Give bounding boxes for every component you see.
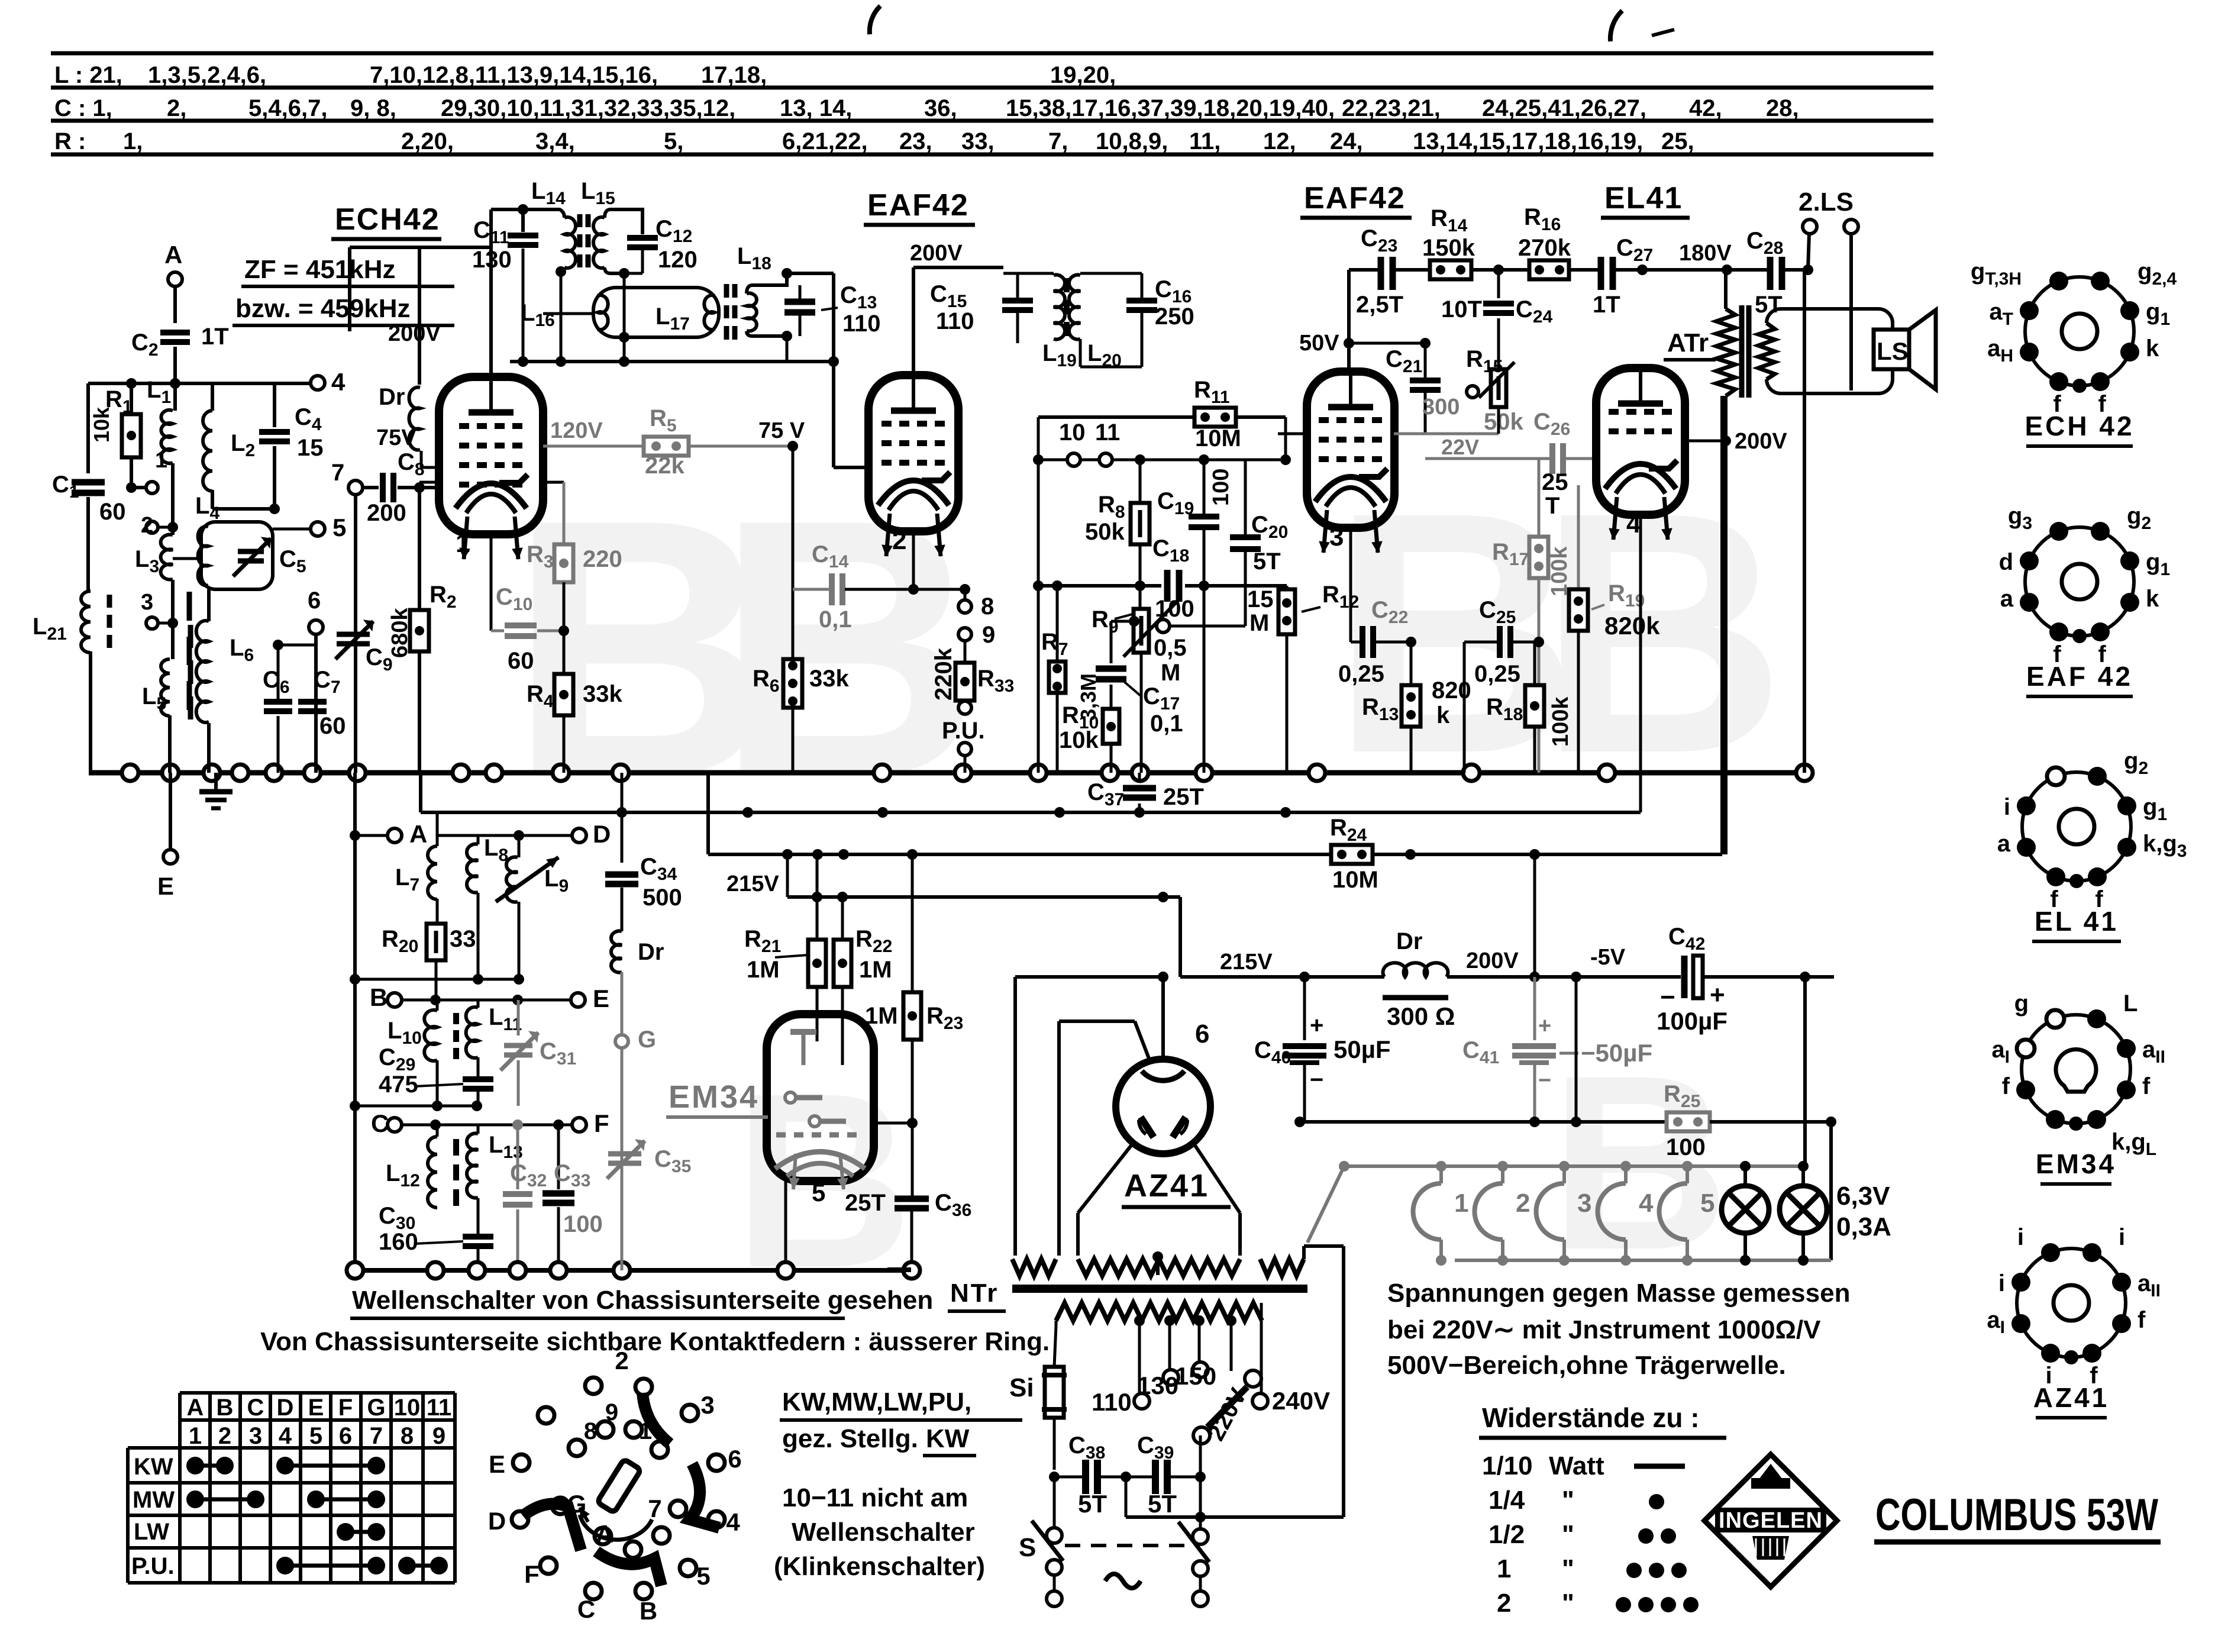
junction (812, 849, 823, 860)
svg-text:60: 60 (319, 713, 346, 739)
svg-text:60: 60 (508, 648, 534, 674)
socket EL41 (2022, 772, 2131, 881)
svg-text:28,: 28, (1766, 95, 1799, 121)
svg-text:25T: 25T (1163, 784, 1204, 810)
junction (1134, 807, 1145, 818)
transformer NTr primary winding (1056, 1303, 1262, 1321)
terminal F (572, 1118, 586, 1132)
wire (1447, 975, 1535, 979)
junction (430, 1119, 441, 1130)
rotary rotor (597, 1459, 641, 1513)
resistor R10 (1110, 685, 1113, 709)
svg-text:B: B (217, 1395, 234, 1421)
tube EAF42 V3 (1307, 372, 1394, 528)
wire (563, 715, 566, 773)
capacitor C32 (516, 1125, 519, 1189)
capacitor C14 (793, 588, 829, 591)
rotary contact arcs (642, 1393, 670, 1444)
svg-text:33,: 33, (961, 128, 995, 154)
wire (211, 490, 214, 509)
capacitor C21 (1424, 343, 1427, 379)
svg-text:E: E (157, 872, 174, 900)
svg-text:": " (1562, 1589, 1574, 1618)
junction (349, 764, 366, 781)
transformer NTr core bar (1012, 1285, 1307, 1293)
junction (350, 974, 360, 985)
svg-text:+: + (1310, 1012, 1323, 1038)
svg-text:k: k (2146, 335, 2159, 362)
wire (1724, 270, 1728, 309)
resistor R24 (1331, 845, 1373, 864)
wire switch bus (354, 1268, 914, 1273)
resistor R8 (1139, 460, 1142, 503)
svg-text:10M: 10M (1195, 425, 1241, 451)
svg-text:5,: 5, (664, 128, 683, 154)
junction (903, 1262, 920, 1279)
wire (168, 715, 172, 773)
terminal 6 (309, 620, 323, 634)
svg-text:G: G (367, 1395, 385, 1421)
resistor R5 (543, 445, 644, 448)
wire (1018, 272, 1054, 275)
junction (1052, 580, 1063, 591)
svg-text:2.LS: 2.LS (1799, 188, 1854, 217)
svg-text:500V−Bereich,ohne Trägerwelle: 500V−Bereich,ohne Trägerwelle. (1387, 1351, 1786, 1380)
svg-text:150k: 150k (1422, 235, 1475, 261)
svg-text:1/10: 1/10 (1482, 1451, 1533, 1480)
svg-text:1: 1 (1454, 1189, 1468, 1218)
wire (1615, 268, 1768, 272)
junction (612, 764, 629, 781)
svg-text:D: D (593, 820, 611, 848)
svg-text:NTr: NTr (950, 1279, 999, 1308)
svg-text:13, 14,: 13, 14, (780, 95, 852, 121)
svg-text:9: 9 (605, 1399, 618, 1425)
capacitor C7 (298, 699, 327, 705)
svg-text:a: a (2000, 586, 2014, 612)
wire (621, 773, 624, 863)
svg-text:11,: 11, (1189, 128, 1220, 154)
svg-text:1: 1 (155, 448, 167, 473)
svg-text:Dr: Dr (1396, 928, 1422, 954)
wire dashed (1065, 1544, 1188, 1547)
junction (877, 807, 888, 818)
resistor R17 (1538, 459, 1541, 537)
junction (614, 1262, 630, 1279)
wire (131, 382, 175, 385)
resistor R21 (808, 940, 826, 987)
resistor R20 (436, 899, 439, 924)
svg-text:7,10,12,8,11,13,9,14,15,16,: 7,10,12,8,11,13,9,14,15,16, (370, 62, 658, 88)
svg-text:E: E (593, 985, 609, 1012)
svg-text:(Klinkenschalter): (Klinkenschalter) (774, 1552, 985, 1581)
terminal G (615, 1035, 628, 1048)
wire (1829, 1122, 1833, 1260)
svg-text:Dr: Dr (379, 384, 405, 410)
svg-text:0,1: 0,1 (1150, 711, 1183, 737)
svg-text:22,23,21,: 22,23,21, (1342, 95, 1441, 121)
wire (131, 486, 145, 489)
svg-text:A: A (409, 820, 427, 848)
svg-text:240V: 240V (1272, 1387, 1330, 1415)
wire (1803, 977, 1807, 1166)
wire (560, 267, 563, 272)
wire (1569, 268, 1599, 272)
junction (1195, 1472, 1206, 1482)
svg-text:2: 2 (892, 526, 906, 555)
svg-text:1,: 1, (123, 128, 143, 154)
svg-text:9: 9 (982, 622, 995, 648)
wire (363, 486, 379, 489)
svg-text:6: 6 (1195, 1019, 1209, 1048)
svg-text:680k: 680k (388, 608, 412, 658)
junction (1406, 637, 1416, 647)
junction (1637, 264, 1648, 275)
svg-text:Von Chassisunterseite sicht: Von Chassisunterseite sichtbare Kontaktf… (260, 1327, 1050, 1356)
svg-text:300 Ω: 300 Ω (1387, 1002, 1455, 1030)
capacitor C33 (557, 1125, 560, 1189)
svg-text:10k: 10k (1059, 727, 1099, 753)
core (453, 1013, 459, 1024)
svg-text:220k: 220k (931, 647, 957, 701)
svg-text:B: B (370, 983, 388, 1011)
svg-text:200V: 200V (910, 241, 963, 266)
junction (430, 995, 441, 1005)
svg-text:120: 120 (658, 247, 698, 273)
svg-text:1,3,5,2,4,6,: 1,3,5,2,4,6, (148, 62, 266, 88)
capacitor C22 (1349, 528, 1352, 642)
svg-text:C: C (371, 1109, 389, 1137)
svg-text:a: a (1997, 831, 2011, 857)
junction (1463, 764, 1480, 781)
inductor L21 (81, 591, 91, 653)
svg-text:5: 5 (1700, 1189, 1714, 1218)
inductor L9 variable (518, 835, 521, 857)
wire (792, 443, 795, 589)
wire 215V right (1178, 897, 1182, 977)
svg-text:50k: 50k (1484, 409, 1523, 435)
junction (1049, 1472, 1060, 1482)
svg-text:0,25: 0,25 (1474, 661, 1520, 687)
wire (1053, 1418, 1056, 1470)
svg-text:215V: 215V (1220, 950, 1273, 975)
svg-text:2,20,: 2,20, (401, 128, 454, 154)
terminal 5 (311, 522, 325, 536)
terminal PU (964, 701, 967, 702)
svg-text:E: E (308, 1395, 324, 1421)
svg-text:−50µF: −50µF (1581, 1039, 1652, 1067)
svg-text:EAF42: EAF42 (867, 188, 969, 222)
terminal E antenna (169, 773, 172, 850)
inductor L1 (173, 383, 177, 411)
junction (414, 482, 425, 493)
junction (1135, 580, 1145, 591)
transformer NTr heater winding 2 (1078, 1259, 1240, 1276)
svg-text:2: 2 (1516, 1189, 1530, 1218)
terminal 7 (348, 480, 363, 495)
wire (436, 814, 439, 846)
junction (1102, 764, 1118, 781)
wire (491, 208, 560, 211)
junction (1803, 264, 1813, 275)
wire (1710, 1120, 1831, 1124)
junction (908, 584, 919, 595)
junction (907, 1118, 918, 1128)
resistor R2 (410, 610, 429, 651)
wire (964, 756, 967, 773)
inductor L20 (1069, 275, 1080, 340)
resistor R7 (1056, 586, 1059, 662)
svg-text:1: 1 (189, 1423, 202, 1449)
svg-text:3: 3 (249, 1423, 262, 1449)
svg-text:6: 6 (728, 1445, 741, 1473)
junction (1280, 807, 1291, 818)
svg-text:3: 3 (1329, 522, 1344, 551)
inductor L7 (428, 846, 437, 899)
junction (1152, 1251, 1163, 1262)
junction (509, 1262, 526, 1279)
junction (232, 764, 248, 781)
svg-text:8: 8 (584, 1418, 597, 1444)
svg-text:EM34: EM34 (2036, 1148, 2116, 1179)
terminal 110 (1134, 1393, 1150, 1409)
svg-text:P.U.: P.U. (131, 1553, 175, 1579)
svg-text:INGELEN: INGELEN (1719, 1508, 1823, 1533)
capacitor C4 (273, 383, 276, 427)
junction (619, 332, 629, 343)
junction (1199, 580, 1209, 591)
svg-text:i: i (2017, 1224, 2024, 1250)
svg-text:10: 10 (1059, 420, 1086, 446)
svg-text:10M: 10M (1332, 867, 1378, 893)
svg-text:180V: 180V (1679, 241, 1732, 266)
wire (784, 1181, 787, 1262)
wire (913, 266, 1003, 269)
wire (1203, 586, 1206, 773)
junction (556, 356, 566, 367)
junction (1800, 972, 1810, 982)
wire (420, 451, 423, 467)
wire (355, 978, 519, 981)
svg-text:75V: 75V (376, 425, 416, 450)
svg-text:7,: 7, (1048, 128, 1068, 154)
junction (122, 764, 138, 781)
wire (1139, 544, 1142, 609)
svg-text:7: 7 (331, 460, 344, 486)
junction (550, 1262, 567, 1279)
svg-text:−: − (1310, 1067, 1323, 1093)
wire (621, 972, 624, 1034)
svg-text:25: 25 (1542, 469, 1568, 495)
svg-text:Si: Si (1009, 1373, 1034, 1402)
lamp 2 (1780, 1186, 1827, 1233)
svg-text:5: 5 (812, 1179, 825, 1206)
svg-text:10−11 nicht am: 10−11 nicht am (782, 1483, 968, 1512)
capacitor C13 (799, 285, 802, 299)
wire top rail (1349, 268, 1379, 272)
svg-text:A: A (164, 241, 182, 269)
svg-text:3,4,: 3,4, (535, 128, 575, 154)
junction (266, 764, 282, 781)
wire (314, 634, 318, 773)
resistor R12 (1286, 586, 1289, 589)
svg-text:150: 150 (1175, 1362, 1216, 1390)
wire (207, 723, 211, 773)
svg-text:+: + (1538, 1014, 1551, 1038)
svg-text:10k: 10k (89, 406, 114, 443)
scan mark (887, 1267, 911, 1272)
junction (518, 356, 528, 367)
wire (621, 888, 624, 931)
junction (1599, 764, 1615, 781)
wire (706, 773, 710, 854)
svg-text:5T: 5T (1253, 548, 1281, 575)
svg-text:M: M (1161, 660, 1180, 686)
junction (1294, 1117, 1305, 1127)
wire (158, 622, 173, 625)
resistor R3 (563, 482, 566, 544)
svg-text:0,25: 0,25 (1338, 661, 1384, 687)
resistor R13 (1410, 642, 1413, 685)
tube EM34 indicator (767, 1014, 874, 1181)
wire cathode V4 (1639, 515, 1642, 812)
svg-text:0,1: 0,1 (819, 606, 852, 633)
svg-text:820k: 820k (1604, 612, 1660, 640)
svg-text:B: B (640, 1597, 657, 1625)
header rule top (51, 51, 1933, 56)
capacitor C38 (1054, 1476, 1083, 1479)
svg-text:50V: 50V (1299, 331, 1339, 356)
svg-text:13,14,15,17,18,16,19,: 13,14,15,17,18,16,19, (1413, 128, 1643, 154)
svg-text:G: G (638, 1027, 656, 1053)
inductor L3 (161, 535, 173, 580)
wire (86, 383, 90, 473)
terminal 8 (964, 589, 967, 599)
svg-text:D: D (277, 1395, 294, 1421)
svg-text:EAF 42: EAF 42 (2026, 661, 2133, 692)
junction (204, 764, 220, 781)
svg-text:1: 1 (1497, 1554, 1511, 1583)
wire (1803, 270, 1806, 773)
svg-text:250: 250 (1155, 304, 1194, 330)
header rule bottom (51, 153, 1933, 157)
capacitor C41 electrolytic (1533, 977, 1536, 1040)
wire (1037, 417, 1040, 773)
wire (173, 557, 201, 560)
wire (273, 446, 276, 509)
junction (1158, 892, 1168, 902)
svg-text:f: f (2142, 1073, 2151, 1099)
junction (1344, 338, 1354, 349)
core (1064, 278, 1070, 292)
svg-text:4: 4 (1626, 509, 1641, 538)
wire (1703, 975, 1805, 979)
capacitor C8 (380, 473, 386, 502)
wire (435, 960, 438, 1000)
svg-text:ZF = 451kHz: ZF = 451kHz (244, 255, 396, 284)
capacitor C30 (477, 1198, 480, 1234)
svg-text:24,25,41,26,27,: 24,25,41,26,27, (1482, 95, 1646, 121)
wire ground bus (89, 770, 1810, 776)
svg-text:": " (1562, 1486, 1574, 1515)
decor scan marks (870, 6, 880, 34)
svg-text:9, 8,: 9, 8, (350, 95, 396, 121)
terminal 130 (1163, 1370, 1178, 1385)
svg-text:Spannungen gegen Masse geme: Spannungen gegen Masse gemessen (1387, 1279, 1850, 1308)
primary taps (1134, 1315, 1145, 1326)
inductor L13 (477, 1125, 480, 1134)
junction (273, 640, 283, 650)
table dots KW (195, 1464, 225, 1468)
terminal C (388, 1118, 402, 1132)
svg-text:200V: 200V (1735, 429, 1787, 454)
svg-text:C : 1,: C : 1, (54, 95, 112, 121)
svg-text:5,4,6,7,: 5,4,6,7, (248, 95, 327, 121)
svg-text:Watt: Watt (1549, 1451, 1604, 1480)
svg-text:25,: 25, (1661, 128, 1694, 154)
junction (1132, 764, 1148, 781)
terminal B (388, 993, 402, 1007)
junction (350, 830, 360, 841)
wire (1349, 342, 1425, 345)
wire (874, 1122, 912, 1125)
core ATr (1739, 305, 1745, 398)
svg-text:8: 8 (981, 593, 994, 619)
wire plate AZ41 (1161, 977, 1165, 1059)
switch arm 220V (1245, 1370, 1261, 1387)
wire plate (912, 267, 915, 375)
svg-text:10,8,9,: 10,8,9, (1096, 128, 1168, 154)
capacitor C29 (477, 1057, 480, 1076)
transformer NTr heater winding 3 (1260, 1259, 1304, 1276)
capacitor C2 (160, 330, 190, 335)
inductor L18 (747, 273, 787, 293)
wire (1463, 642, 1466, 773)
wire (173, 347, 177, 383)
header rule 3 (51, 119, 1933, 123)
ground (214, 773, 218, 792)
svg-text:36,: 36, (924, 95, 957, 121)
wire (89, 651, 92, 773)
svg-text:F: F (338, 1395, 353, 1421)
svg-text:29,30,10,11,31,32,33,35,12,: 29,30,10,11,31,32,33,35,12, (441, 95, 735, 121)
capacitor C16 (1079, 339, 1082, 367)
terminal 9 (958, 628, 971, 641)
wire R25 row (1300, 1120, 1667, 1124)
resistor R18 (1533, 642, 1536, 685)
junction (960, 584, 970, 595)
switch S left (1053, 1477, 1056, 1528)
svg-text:MW: MW (133, 1487, 175, 1513)
svg-text:f: f (2137, 1307, 2146, 1333)
terminal 240V (1252, 1393, 1268, 1409)
fuse Si (1054, 1325, 1056, 1367)
svg-text:10: 10 (394, 1395, 421, 1421)
junction (782, 268, 792, 279)
junction (838, 849, 849, 860)
inductor L14 (523, 209, 564, 218)
svg-text:50k: 50k (1085, 519, 1125, 545)
inductor L8 (477, 835, 480, 844)
svg-text:500: 500 (642, 885, 682, 911)
svg-text:1M: 1M (859, 957, 892, 983)
resistor R25 (1667, 1112, 1710, 1131)
wire (489, 209, 493, 247)
svg-text:110: 110 (842, 311, 881, 337)
svg-text:AZ41: AZ41 (2033, 1382, 2109, 1413)
junction (486, 764, 502, 781)
capacitor C23 (1378, 257, 1384, 290)
